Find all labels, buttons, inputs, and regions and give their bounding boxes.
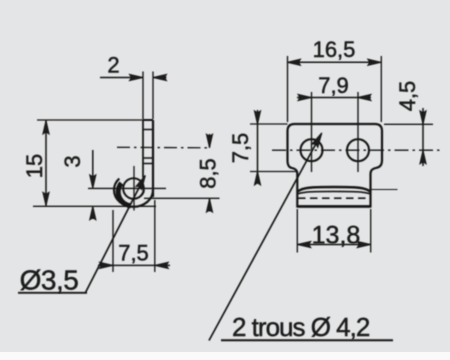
svg-text:3: 3	[60, 155, 85, 167]
svg-text:7,5: 7,5	[118, 241, 149, 266]
svg-text:13,8: 13,8	[312, 222, 361, 250]
svg-text:2: 2	[107, 53, 119, 78]
svg-text:8,5: 8,5	[196, 158, 221, 189]
svg-text:16,5: 16,5	[313, 37, 356, 62]
svg-text:15: 15	[22, 154, 47, 178]
svg-text:2 trous Ø 4,2: 2 trous Ø 4,2	[232, 312, 370, 342]
svg-text:Ø3,5: Ø3,5	[20, 265, 79, 296]
svg-text:7,5: 7,5	[228, 133, 253, 164]
svg-text:4,5: 4,5	[395, 81, 420, 112]
svg-text:7,9: 7,9	[318, 73, 349, 98]
